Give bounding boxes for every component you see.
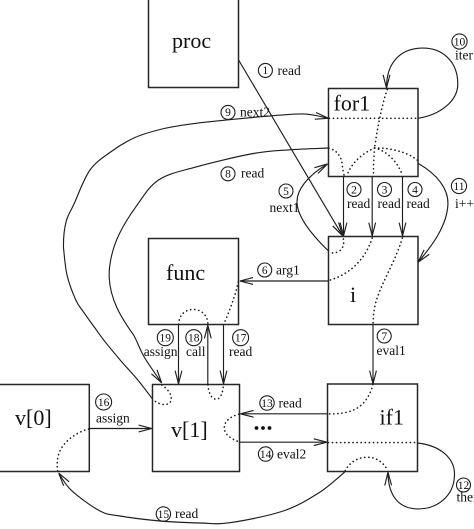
dotted fan in for1: junction to exit of edge 3 xyxy=(373,148,374,176)
svg-text:read: read xyxy=(279,396,302,411)
edge 1 read: proc -> i xyxy=(238,60,342,236)
dotted arc in i: entry 3 to arg1 exit (edge 6) xyxy=(329,238,372,280)
svg-text:then: then xyxy=(457,490,474,505)
edge 8 read: for1 -> v[1] xyxy=(109,148,328,383)
svg-text:4: 4 xyxy=(412,184,418,196)
dotted fan in for1: junction to exit of edge 4 xyxy=(375,148,403,176)
svg-text:call: call xyxy=(186,344,206,359)
svg-text:arg1: arg1 xyxy=(276,263,300,278)
edge 9 next2: v[1] -> for1 xyxy=(63,105,328,400)
edge 3 read: for1 -> i xyxy=(372,176,401,235)
svg-text:i: i xyxy=(350,282,356,307)
svg-text:assign: assign xyxy=(96,411,130,426)
svg-text:15: 15 xyxy=(158,509,170,521)
node if1 xyxy=(328,384,418,472)
dotted arc in for1: bottom to read exit (edge 8) xyxy=(329,148,344,175)
dotted arc in v[1]: read entry (17) to call exit (18) xyxy=(208,385,224,399)
dotted arc in v[0]: read entry (15) to assign exit (16) xyxy=(57,429,89,471)
node proc xyxy=(149,0,239,88)
svg-text:18: 18 xyxy=(188,333,200,345)
edge 13 read: if1 -> v[1] xyxy=(241,396,328,414)
edge 5 next1: i -> for1 xyxy=(270,164,329,251)
dotted arc in if1: then entry (12) to read exit (15) xyxy=(345,457,387,471)
edge 11 i++: for1 -> i xyxy=(418,164,474,262)
svg-text:iter: iter xyxy=(455,48,473,63)
edge 4 read: for1 -> i xyxy=(403,176,430,235)
svg-text:14: 14 xyxy=(260,449,272,461)
svg-text:read: read xyxy=(347,196,370,211)
dotted fan in for1: junction to exit of edge 11 xyxy=(375,148,418,161)
edge 16 assign: v[0] -> v[1] xyxy=(89,394,151,429)
edge 6 arg1: i -> func xyxy=(240,263,328,282)
svg-text:read: read xyxy=(378,196,401,211)
svg-text:if1: if1 xyxy=(380,405,404,430)
svg-text:func: func xyxy=(166,260,205,285)
svg-text:16: 16 xyxy=(98,397,110,409)
svg-text:next1: next1 xyxy=(270,200,300,215)
ellipsis between v[1] and if1 xyxy=(255,426,272,430)
svg-text:6: 6 xyxy=(262,265,268,277)
svg-text:read: read xyxy=(241,166,264,181)
svg-text:v[1]: v[1] xyxy=(171,417,208,442)
svg-text:for1: for1 xyxy=(334,91,371,116)
svg-text:eval1: eval1 xyxy=(377,343,406,358)
svg-text:19: 19 xyxy=(160,333,172,345)
svg-text:17: 17 xyxy=(235,333,247,345)
dotted arc in func: call entry to assign exit xyxy=(179,310,208,325)
svg-text:read: read xyxy=(407,196,430,211)
edge 2 read: for1 -> i xyxy=(344,176,371,235)
dotted arc in i: entry 1/2 to next1 exit (edge 5) xyxy=(329,239,344,253)
svg-text:3: 3 xyxy=(382,184,388,196)
node for1 xyxy=(329,89,419,177)
node i xyxy=(329,237,419,325)
svg-text:8: 8 xyxy=(225,169,231,181)
edge 19 assign: func -> v[1] xyxy=(144,324,179,383)
svg-text:9: 9 xyxy=(225,107,231,119)
svg-text:eval2: eval2 xyxy=(277,447,306,462)
svg-text:read: read xyxy=(278,63,301,78)
dotted loop in v[1]: read entry (8) to next2 exit (9) xyxy=(153,385,171,405)
svg-text:11: 11 xyxy=(453,181,464,193)
svg-text:2: 2 xyxy=(351,184,357,196)
edge 17 read: func -> v[1] xyxy=(224,324,253,383)
dotted fan in for1: junction to exit of edge 2 xyxy=(347,148,375,176)
dotted arc in i: entry 4 to eval1 exit (edge 7) xyxy=(373,238,402,324)
svg-text:1: 1 xyxy=(263,65,269,77)
svg-text:7: 7 xyxy=(381,331,387,343)
svg-text:proc: proc xyxy=(172,28,211,53)
svg-text:v[0]: v[0] xyxy=(15,405,52,430)
svg-text:13: 13 xyxy=(261,398,273,410)
svg-text:next2: next2 xyxy=(240,105,270,120)
svg-text:read: read xyxy=(229,344,252,359)
edge 15 read: if1 -> v[0] xyxy=(59,472,345,524)
dotted arc in func: arg1 entry to read exit xyxy=(224,282,239,324)
svg-text:assign: assign xyxy=(144,344,178,359)
svg-text:5: 5 xyxy=(283,186,289,198)
edge 7 eval1: i -> if1 xyxy=(373,325,406,384)
dotted arc in v[1]: read entry (13) to eval2 exit (14) xyxy=(224,414,239,442)
edge 10 iter: for1 self loop xyxy=(387,34,474,118)
svg-text:10: 10 xyxy=(454,36,466,48)
svg-text:i++: i++ xyxy=(455,196,474,211)
node v[0] xyxy=(0,385,89,472)
node func xyxy=(149,239,239,325)
svg-text:read: read xyxy=(175,506,198,521)
dotted internal path in for1: iter entry down to junction xyxy=(375,90,388,149)
edge 12 then: if1 self loop xyxy=(388,443,474,509)
edge 14 eval2: v[1] -> if1 xyxy=(239,442,326,461)
edge 18 call: v[1] -> func xyxy=(186,326,208,385)
node v[1] xyxy=(153,385,240,472)
dotted arc in if1: eval1 entry to read exit (13) xyxy=(328,385,373,414)
